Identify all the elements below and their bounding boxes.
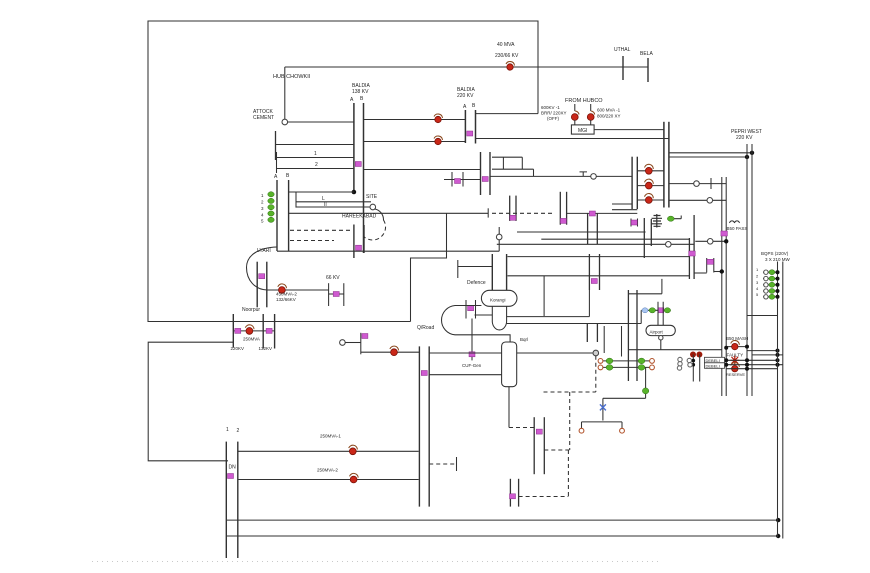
bus lyari 1 (256, 262, 258, 308)
wire 232 (517, 231, 646, 233)
wire drop to line (533, 169, 535, 176)
tick isolator (482, 177, 488, 182)
breaker hook (645, 164, 654, 169)
breaker red donut (732, 343, 738, 349)
svg-text:1: 1 (314, 151, 317, 157)
tick isolator (356, 245, 362, 250)
bus defence A (491, 254, 493, 291)
svg-text:II: II (324, 202, 327, 208)
svg-text:DEBELI: DEBELI (706, 364, 720, 369)
node H bar small 2 (637, 219, 639, 227)
node attock cement circle (282, 119, 288, 125)
svg-text:CUF-Gen: CUF-Gen (462, 363, 482, 368)
bus hareekabad A (276, 180, 278, 251)
node line cap bar (276, 152, 278, 173)
wire 239 (541, 238, 689, 240)
wire 66kv link (329, 293, 344, 295)
node junction (776, 518, 780, 522)
pill Airport (646, 325, 675, 335)
bus hareekabad B (288, 180, 290, 251)
wire dashed stub (429, 463, 456, 465)
wire H mid (707, 261, 714, 263)
tick isolator (333, 292, 339, 297)
svg-text:220 KV: 220 KV (736, 135, 753, 141)
breaker 450mva-2 (279, 287, 286, 294)
svg-text:BELA: BELA (640, 51, 653, 57)
symbol blue cross (600, 404, 606, 410)
wire baldia220 to pepri bus (476, 138, 669, 140)
node airport circle (659, 336, 663, 340)
node grey point (593, 350, 599, 356)
wire 323 (507, 323, 642, 325)
bus defence B (506, 254, 508, 291)
bus bq pair 1 (627, 290, 629, 381)
wire boundary riser (411, 213, 447, 321)
wire line 1 (277, 157, 354, 159)
wire top stub 2 (492, 168, 534, 170)
wire bqrl bottom drop (508, 387, 510, 428)
wire attock line 2 (276, 144, 354, 146)
wire dashed 392 (544, 391, 596, 393)
breaker upper (435, 116, 441, 122)
wire right 183 (669, 183, 726, 185)
wire bus to open point (490, 175, 591, 177)
bus pair 587/597 (587, 213, 589, 244)
tick isolator (228, 474, 234, 479)
svg-text:HUB CHOWKII: HUB CHOWKII (273, 74, 311, 80)
switch dot (571, 114, 578, 121)
wire isolator row 2 (599, 366, 654, 368)
node junction (724, 239, 728, 243)
bus pair 589/599 (588, 254, 590, 290)
wire top stub drop2 (521, 157, 523, 169)
bus pair 510/516 (509, 196, 511, 221)
node bar (360, 333, 362, 355)
node bars 466/475 (465, 300, 467, 319)
node cap bar (487, 208, 489, 217)
bus bqps 1 (777, 262, 779, 538)
svg-text:2: 2 (237, 428, 240, 434)
wire to pepri west lower (669, 156, 747, 158)
svg-text:CEMENT: CEMENT (253, 115, 274, 121)
wire 213 right (567, 212, 638, 214)
svg-text:MGI: MGI (578, 128, 587, 134)
wire feeder 2 (637, 185, 664, 187)
bus lower pair 2 (363, 225, 365, 253)
svg-text:220KV: 220KV (231, 346, 245, 351)
svg-text:FROM HUBCO: FROM HUBCO (565, 98, 603, 104)
svg-text:Korangi: Korangi (490, 298, 506, 303)
switch hook (591, 111, 595, 115)
wire top stub 1 (492, 156, 522, 158)
wire line 2 (277, 168, 354, 170)
breaker hook (390, 346, 399, 350)
svg-text:RESERVE: RESERVE (726, 372, 745, 377)
bus DN 1 (225, 442, 227, 558)
wire open point to bars (596, 175, 632, 177)
disconnect green (606, 358, 613, 364)
switch hook (575, 111, 579, 115)
switch circle (579, 428, 584, 433)
tick isolator (510, 215, 516, 220)
node T bar (456, 457, 458, 471)
switch dot (587, 114, 594, 121)
wire dashed drop2 (569, 392, 571, 450)
wire outer boundary left/top/right (148, 21, 538, 322)
breaker feeder 3 (645, 197, 652, 204)
svg-text:B50 PASS: B50 PASS (727, 226, 748, 231)
node open end (370, 204, 376, 210)
bus pair 510/518 (509, 479, 511, 507)
svg-text:800/220 XY: 800/220 XY (597, 114, 621, 119)
breaker hook (645, 194, 654, 199)
svg-text:Q/Road: Q/Road (417, 325, 434, 331)
wire defence line 1 (508, 256, 690, 258)
wire line L (296, 201, 371, 203)
bus tall pair 2 (428, 346, 430, 506)
svg-text:3 X 210 MW: 3 X 210 MW (765, 257, 791, 262)
bus pair 643/652 (643, 218, 645, 258)
node open point (591, 174, 597, 180)
box MGI (571, 125, 594, 134)
tick isolator (468, 306, 474, 311)
wire L link (629, 279, 662, 294)
wire green to tick (674, 216, 681, 219)
node junction (776, 534, 780, 538)
wire link 273 (694, 272, 707, 274)
svg-text:40 MVA: 40 MVA (497, 42, 515, 48)
bus hook pair 1 (688, 238, 690, 279)
wire 353 mid (517, 352, 593, 354)
wire 316 (475, 314, 493, 316)
bus 220 main A (663, 122, 665, 208)
wire faulty 360 (726, 359, 777, 361)
wire stub a (612, 203, 632, 205)
disconnect green 2 (268, 198, 274, 203)
box DEBELI 1 (705, 357, 725, 363)
bus BALDIA138 B (363, 103, 365, 253)
bus right vertical b (725, 177, 727, 396)
tick isolator (469, 352, 475, 357)
tick isolator (536, 429, 542, 434)
wire airport drop (660, 340, 662, 350)
bus bq pair 2 (636, 290, 638, 381)
breaker hook (278, 284, 287, 288)
svg-text:BQPS (220V): BQPS (220V) (761, 251, 789, 256)
svg-text:(OFF): (OFF) (547, 116, 559, 121)
wire stub b (612, 209, 637, 211)
tick isolator (266, 328, 272, 333)
node T tick (580, 172, 588, 177)
svg-text:138 KV: 138 KV (352, 89, 369, 95)
wire right 241 (695, 240, 726, 242)
wire feeder 1 (637, 170, 664, 172)
wire A to baldia220 upper (364, 119, 466, 121)
bus DN 2 (237, 442, 239, 558)
wire 398 (603, 397, 646, 399)
wire line II (296, 206, 371, 208)
bus 220 main B (668, 122, 670, 208)
svg-text:600 MVA -1: 600 MVA -1 (597, 108, 621, 113)
wire dashed drop (595, 356, 597, 392)
wire 450mva-2 line (267, 289, 329, 291)
wire site link (289, 191, 354, 193)
tick isolator (631, 220, 637, 225)
wire T head (582, 422, 623, 428)
tick isolator (455, 179, 461, 184)
pill Q-road racetrack (442, 306, 511, 343)
wire link row (640, 310, 642, 323)
breaker hook (506, 62, 515, 66)
transformer coil (652, 216, 663, 227)
disconnect green 5 (268, 217, 274, 222)
node open point (666, 242, 672, 248)
breaker 250mva1 (349, 448, 356, 455)
node tick bar (710, 178, 712, 189)
svg-text:DN: DN (229, 465, 237, 471)
svg-text:450MVA-2: 450MVA-2 (276, 292, 297, 297)
switch stub hubco 1 (574, 104, 576, 111)
breaker feeder 2 (645, 182, 652, 189)
bus noorpur 220 (232, 314, 234, 348)
tick isolator (707, 259, 714, 264)
bus mid pair 1 (480, 152, 482, 195)
wire A to baldia220 lower (364, 141, 466, 143)
bus pepri west 2 (751, 144, 753, 396)
wire bqps link (747, 315, 778, 317)
bus pair 534/544 (533, 417, 535, 474)
svg-text:SITE: SITE (366, 194, 378, 200)
node BELA bar (647, 58, 649, 82)
breaker hook (434, 114, 443, 118)
tick isolator (235, 328, 241, 333)
tick isolator (560, 218, 566, 223)
breaker hook (731, 363, 740, 367)
node open point (694, 181, 700, 187)
wire MGI to pepri bus (594, 129, 664, 131)
disconnect green (667, 216, 674, 221)
wire feeder 3 (637, 199, 664, 201)
disconnect green (649, 308, 655, 313)
switch circle (620, 428, 625, 433)
node site junction (352, 190, 357, 195)
wire dashed b (290, 240, 334, 242)
wire CUF-Gen drop (471, 319, 473, 361)
breaker qroad (391, 349, 398, 356)
breaker lower (435, 138, 441, 144)
wire dashed 450 (544, 449, 569, 451)
transformer core bar (656, 214, 658, 228)
switch circle (650, 365, 655, 370)
bus BALDIA220 A (464, 110, 466, 143)
switch circle (598, 359, 603, 364)
disconnect green 2 (664, 308, 670, 313)
wire defence left (458, 266, 493, 268)
wire baldia220 to border (476, 113, 539, 115)
tick isolator (721, 231, 728, 236)
pill Korangi (481, 290, 517, 306)
svg-text:Noorpur: Noorpur (242, 307, 260, 313)
symbol B50 PASS arcs (730, 221, 740, 223)
bus tall pair 1 (418, 346, 420, 506)
bus pair 560/566 (559, 192, 561, 225)
tick isolator (259, 274, 265, 279)
box DEBELI 2 (705, 363, 725, 369)
bus feeder bar 1 (631, 157, 633, 209)
node H bar 1 (451, 172, 453, 187)
wire 251 long (277, 250, 499, 252)
wire curve solid (375, 209, 384, 220)
breaker hook (731, 341, 740, 345)
node UTHAL bar (622, 56, 624, 80)
wire korangi stem (492, 306, 506, 330)
wire 349 (628, 349, 721, 351)
bus pepri west 1 (746, 144, 748, 396)
node H bar small 1 (630, 219, 632, 227)
bus hook pair 2 (693, 215, 695, 279)
wire bottom long 2 (226, 535, 778, 537)
breaker 250mva2 (350, 476, 357, 483)
wire attock line 1 (288, 121, 354, 123)
bus top 66kv line (285, 66, 648, 68)
wire H line left (444, 179, 481, 181)
svg-text:B50 MASH: B50 MASH (726, 336, 748, 341)
svg-text:1: 1 (226, 427, 229, 433)
svg-text:Bqrl: Bqrl (520, 337, 528, 342)
switch circle (650, 359, 655, 364)
svg-text:UTHAL: UTHAL (614, 47, 631, 53)
node junction (750, 151, 754, 155)
node 66kv bar 2 (343, 283, 345, 306)
svg-text:66 KV: 66 KV (326, 275, 340, 281)
breaker feeder 1 (645, 167, 652, 174)
wire dashed drop3 (567, 450, 569, 497)
node attock terminal bar (275, 131, 277, 160)
node H bar 1 (706, 258, 708, 273)
disconnect green (638, 365, 645, 371)
wire stub to MGI (575, 120, 591, 125)
breaker noorpur (246, 328, 253, 335)
node H bar 2 (713, 258, 715, 273)
wire drop verticals (604, 326, 621, 357)
wire hub chowkii drop (284, 67, 286, 119)
svg-text:BRR/ 220XY: BRR/ 220XY (541, 111, 567, 116)
svg-text:DEBELI: DEBELI (706, 358, 720, 363)
node cap bar (457, 260, 459, 278)
switch stub hubco 2 (590, 104, 592, 111)
disconnect green (606, 365, 613, 371)
pill Bqrl (502, 342, 517, 387)
node 66kv bar 1 (328, 283, 330, 306)
wire defence line 2 (508, 275, 690, 277)
node junction (745, 155, 749, 159)
bus noorpur 132a (262, 314, 264, 349)
svg-text:2: 2 (315, 162, 318, 168)
wire bottom long 1 (226, 519, 778, 521)
wire faulty 350 (747, 350, 778, 352)
disconnect blue (642, 308, 648, 313)
wire right 200 (669, 199, 726, 201)
disconnect green 1 (268, 192, 274, 197)
wire bottom faded dotted line (92, 561, 660, 563)
wire lyari arc (247, 247, 278, 290)
bus noorpur 132b (274, 314, 276, 349)
bus BALDIA138 A (353, 103, 355, 192)
disconnect green (638, 358, 645, 364)
disconnect green (642, 388, 648, 394)
breaker hook (349, 445, 358, 449)
wire 316 right (507, 290, 590, 317)
wire isolator row 1 (599, 360, 654, 362)
wire boundary bottom (148, 321, 411, 323)
switch small circles (678, 357, 682, 361)
wire 250MVA-2 (238, 479, 419, 481)
wire 271 (714, 271, 722, 273)
unit row 3 (763, 284, 778, 286)
unit row 1 (763, 271, 778, 273)
wire faulty 354 (752, 354, 783, 356)
bus right vertical a (721, 177, 723, 396)
switch circle (598, 365, 603, 370)
disconnect green 4 (268, 211, 274, 216)
svg-text:Airport: Airport (650, 330, 664, 335)
tick isolator (510, 494, 516, 499)
node junction (720, 269, 724, 273)
wire drop (295, 192, 297, 208)
tick isolator (355, 162, 361, 167)
wire debeli drops (693, 355, 699, 382)
svg-text:250MVA-1: 250MVA-1 (320, 434, 341, 439)
wire to pepri west upper (669, 152, 752, 154)
tick isolator (658, 308, 664, 313)
node junction (692, 359, 696, 363)
breaker red donut 2 (732, 366, 738, 372)
symbol red star (730, 356, 739, 365)
breaker hook (350, 473, 359, 477)
node open point (707, 239, 713, 245)
wire long 213 left (289, 212, 488, 214)
tick isolator (589, 211, 595, 216)
unit row 4 (763, 290, 778, 292)
wire faulty 368 (726, 368, 777, 370)
symbol dark red dots (690, 352, 696, 358)
wire dashed a (290, 229, 352, 231)
bus feeder bar 2 (636, 157, 638, 209)
wire 244 (497, 243, 694, 245)
bus pair 587/597 low (586, 324, 588, 343)
bus bqps 2 (782, 262, 784, 539)
breaker hook (645, 179, 654, 184)
node open point (496, 234, 502, 240)
wire qroad a (345, 342, 361, 344)
wire to bqrl top (429, 352, 501, 354)
svg-text:230/66 KV: 230/66 KV (495, 53, 519, 59)
bus lyari 2 (266, 262, 268, 308)
wire drop (602, 398, 604, 420)
wire dashed 427 (509, 427, 534, 429)
wire line2 continuation (364, 169, 481, 171)
svg-text:600KV -1: 600KV -1 (541, 105, 560, 110)
breaker hook (245, 325, 254, 329)
wire 250MVA-1 (238, 450, 419, 452)
wire faulty 364 (726, 364, 783, 366)
tick isolator (467, 131, 473, 136)
breaker hook (434, 136, 443, 140)
wire top stub drop (502, 157, 504, 169)
wire dashed 213 (492, 212, 554, 214)
tick isolator (362, 334, 368, 339)
tick isolator (591, 279, 597, 284)
